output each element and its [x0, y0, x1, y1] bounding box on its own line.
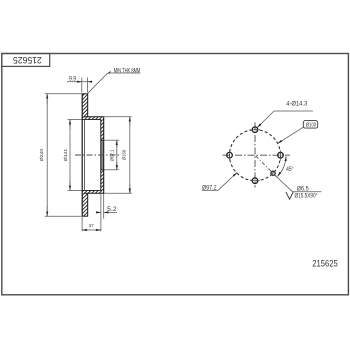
disc right edge bottom	[87, 194, 89, 217]
dimension D150 ext top	[104, 116, 132, 118]
D97.2 underline	[202, 189, 218, 191]
D100 leader	[278, 127, 304, 143]
disc hatch bottom	[82, 191, 88, 217]
hat rim visible edge	[84, 120, 86, 191]
hat outer edge top	[84, 116, 104, 118]
disc top edge	[82, 93, 88, 95]
MIN THK 8MM underline	[108, 72, 141, 74]
dimension D57.1 ext bottom	[104, 169, 119, 171]
svg-text:9.9: 9.9	[69, 76, 76, 83]
flange right edge	[103, 117, 105, 194]
dimension D57.1 line	[116, 140, 118, 169]
dimension 5.2 ext left long	[100, 194, 102, 232]
svg-text:MIN THK 8MM: MIN THK 8MM	[114, 67, 141, 74]
45 deg diagonal centerline	[256, 156, 277, 177]
D100 boxed label	[303, 121, 317, 129]
svg-text:Ø141: Ø141	[63, 149, 69, 162]
dimension D57.1 ext top	[104, 139, 119, 141]
dimension D57.1 arrow bottom	[116, 162, 118, 170]
D97.2 leader	[218, 173, 237, 191]
dimension D240 arrow bottom	[46, 206, 48, 216]
disc right edge top	[87, 94, 89, 117]
dimension 5.2 ext right	[103, 194, 105, 219]
dimension D57.1 arrow top	[116, 140, 118, 148]
dimension D141 line	[69, 120, 71, 190]
svg-text:4-Ø14.3: 4-Ø14.3	[286, 101, 307, 108]
svg-text:5.2: 5.2	[107, 206, 117, 213]
leader 4-D14.3	[257, 111, 274, 128]
hat outer edge bottom	[84, 192, 104, 194]
bolt hole N	[252, 127, 258, 133]
bolt circle dashed D100	[230, 130, 281, 181]
dimension 9.9 ext line right	[87, 78, 89, 93]
disc bottom edge	[82, 215, 88, 217]
dimension 37 arrow left	[82, 229, 88, 231]
dimension D141 arrow top	[69, 120, 71, 129]
bolt hole W tick	[229, 150, 231, 160]
45 deg arc	[278, 156, 286, 176]
bolt hole E tick	[280, 150, 282, 160]
dimension D240 arrow top	[46, 94, 48, 104]
flange hatch bottom	[101, 170, 104, 191]
vertical centerline	[254, 123, 256, 188]
svg-text:215625: 215625	[312, 259, 338, 269]
svg-text:Ø240: Ø240	[39, 149, 45, 162]
countersink leader	[275, 175, 293, 192]
countersunk hole SE	[271, 171, 275, 175]
dimension D150 line	[129, 117, 131, 193]
dimension 9.9 line left w arrow	[67, 81, 82, 83]
dimension 9.9 ext line left	[81, 78, 83, 93]
frame border	[2, 54, 349, 295]
45 deg arc arrow top	[285, 157, 287, 161]
dimension 37 ext left	[81, 217, 83, 231]
flange hatch top	[101, 120, 104, 141]
dimension 9.9 line right w arrow	[88, 81, 93, 83]
hat inner edge top	[82, 119, 101, 121]
dimension D150 ext bottom	[104, 192, 132, 194]
D100 leader arrow	[278, 141, 282, 144]
svg-text:215625: 215625	[13, 55, 42, 66]
4-D14.3 underline	[274, 110, 313, 112]
bolt hole E	[278, 152, 284, 158]
dimension D240 line	[46, 94, 48, 216]
bore region gray	[101, 140, 104, 170]
bolt hole N tick	[250, 129, 260, 131]
bore bottom edge	[101, 169, 104, 171]
svg-text:Ø57.1: Ø57.1	[109, 149, 115, 161]
dimension D150 arrow top	[129, 117, 131, 126]
svg-text:Ø15.5X90°: Ø15.5X90°	[295, 193, 318, 200]
leader 4-D14.3 arrow	[257, 124, 261, 128]
dimension D150 arrow bottom	[129, 184, 131, 193]
horizontal centerline	[223, 154, 291, 156]
disc hatch top	[82, 94, 88, 120]
dimension 37 line	[82, 229, 101, 231]
MIN THK 8MM leader	[88, 73, 108, 93]
dimension D240 ext top	[45, 93, 82, 95]
dimension D141 ext bottom	[68, 189, 83, 191]
countersink symbol	[286, 192, 293, 199]
dimension 5.2 line right w arrow	[104, 211, 117, 213]
bolt hole W	[227, 152, 233, 158]
MIN THK 8MM leader arrow	[107, 71, 111, 74]
disc outline left edge	[81, 94, 83, 217]
centerline left view	[75, 154, 121, 156]
svg-text:37: 37	[89, 223, 94, 228]
bore top edge	[101, 139, 104, 141]
hat wall hatch bottom	[88, 191, 104, 194]
dimension D141 arrow bottom	[69, 181, 71, 190]
svg-text:Ø150: Ø150	[121, 149, 127, 160]
dimension D141 ext top	[68, 119, 83, 121]
dimension D240 ext bottom	[45, 215, 82, 217]
hat wall hatch top	[88, 117, 104, 120]
title box top-left	[2, 54, 50, 67]
flange left edge	[100, 120, 102, 191]
hat inner edge bottom	[82, 189, 101, 191]
bolt hole S	[252, 178, 258, 184]
D97.2 leader arrow	[234, 173, 237, 176]
dimension 37 arrow right	[95, 229, 101, 231]
svg-text:45°: 45°	[286, 167, 294, 173]
countersunk hole SE tick	[270, 170, 276, 176]
svg-text:Ø100: Ø100	[306, 122, 316, 128]
dimension 5.2 line left w arrow	[96, 211, 101, 213]
countersink underline	[293, 191, 322, 193]
bolt hole S tick	[250, 180, 260, 182]
45 deg arc arrow bottom	[278, 173, 280, 176]
